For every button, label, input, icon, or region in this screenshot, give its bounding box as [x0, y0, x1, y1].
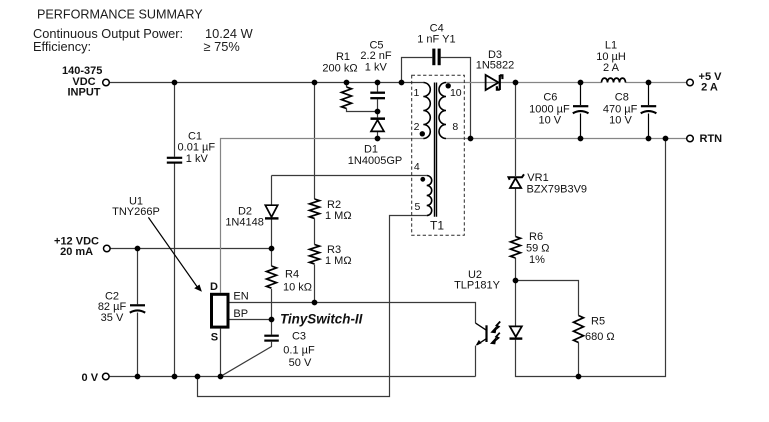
svg-text:10 kΩ: 10 kΩ	[283, 282, 312, 294]
svg-text:1 kV: 1 kV	[365, 61, 388, 73]
transformer T1 dashed box	[412, 75, 465, 235]
svg-text:200 kΩ: 200 kΩ	[322, 63, 357, 75]
inductor L1	[602, 78, 626, 82]
svg-text:470 µF: 470 µF	[603, 103, 638, 115]
resistor R6	[511, 237, 521, 259]
capacitor C8 (electrolytic)	[641, 83, 657, 139]
terminal +5 V 2 A	[687, 79, 694, 86]
resistor R4	[267, 266, 277, 288]
svg-text:C6: C6	[543, 92, 557, 104]
title PERFORMANCE SUMMARY	[33, 8, 254, 55]
capacitor C6 (electrolytic)	[573, 83, 589, 139]
svg-text:5: 5	[414, 201, 420, 213]
capacitor C5	[370, 93, 385, 99]
svg-text:D1: D1	[364, 144, 378, 156]
svg-text:TNY266P: TNY266P	[112, 206, 160, 218]
svg-text:1000 µF: 1000 µF	[529, 103, 570, 115]
svg-text:8: 8	[452, 121, 458, 133]
svg-text:1N5822: 1N5822	[476, 59, 515, 71]
optocoupler U2 light arrows	[492, 322, 500, 344]
wire D1 leads	[377, 112, 379, 139]
svg-text:T1: T1	[430, 219, 444, 233]
resistor R3	[310, 245, 320, 264]
svg-text:C8: C8	[615, 92, 629, 104]
capacitor C4 (Y1)	[432, 49, 440, 66]
svg-text:4: 4	[414, 161, 420, 173]
optocoupler U2 LED	[510, 326, 523, 339]
svg-text:50 V: 50 V	[289, 357, 312, 369]
svg-text:INPUT: INPUT	[68, 87, 101, 99]
diode D1	[371, 117, 386, 131]
svg-text:PERFORMANCE SUMMARY: PERFORMANCE SUMMARY	[37, 8, 203, 22]
terminal 140-375 VDC INPUT	[103, 79, 110, 86]
svg-text:10: 10	[450, 87, 462, 99]
svg-text:1N4148: 1N4148	[225, 217, 264, 229]
terminal RTN	[687, 135, 694, 142]
svg-text:D: D	[210, 281, 218, 293]
svg-text:L1: L1	[605, 40, 617, 52]
transformer T1 primary winding pins 1-2	[423, 83, 430, 139]
wire bottom loop / bias return	[198, 216, 427, 397]
svg-text:2 A: 2 A	[701, 82, 718, 94]
svg-text:EN: EN	[233, 290, 248, 302]
svg-text:2.2 nF: 2.2 nF	[360, 50, 391, 62]
svg-text:0.01 µF: 0.01 µF	[178, 142, 216, 154]
svg-text:1 kV: 1 kV	[186, 153, 209, 165]
U1 TinySwitch-II chip	[212, 294, 229, 327]
zener VR1	[509, 174, 525, 188]
wire drain net (grey)	[221, 83, 687, 293]
svg-text:35 V: 35 V	[101, 312, 124, 324]
optocoupler U2 emitter arrowhead	[476, 340, 482, 346]
optocoupler U2 phototransistor	[476, 323, 487, 345]
svg-text:TLP181Y: TLP181Y	[454, 279, 501, 291]
terminal +12 VDC 20 mA	[104, 245, 111, 252]
capacitor C3	[264, 336, 279, 341]
svg-text:2: 2	[414, 121, 420, 133]
transformer phasing dot secondary	[446, 83, 451, 88]
transformer phasing dot primary	[420, 131, 425, 136]
svg-text:10 V: 10 V	[538, 115, 561, 127]
svg-text:20 mA: 20 mA	[60, 246, 93, 258]
resistor R1	[342, 87, 352, 108]
transformer T1 secondary winding pins 10-8	[439, 83, 446, 139]
wire R1 leads	[347, 83, 378, 112]
svg-text:C3: C3	[292, 331, 306, 343]
svg-text:59 Ω: 59 Ω	[526, 243, 550, 255]
svg-text:C4: C4	[430, 22, 444, 34]
wire secondary RTN rail (grey)	[446, 138, 687, 140]
svg-text:VR1: VR1	[527, 172, 548, 184]
wire R2 R3 column	[314, 83, 316, 303]
wire R6 to R5 branch	[516, 281, 579, 377]
svg-text:R1: R1	[336, 51, 350, 63]
wire VR1 R6 column	[515, 83, 517, 281]
wire C2 column	[137, 249, 139, 377]
wire D2 R4 column	[271, 176, 273, 320]
svg-text:S: S	[211, 332, 218, 344]
wire C1 column	[174, 83, 176, 377]
wire pin4 bias line	[272, 175, 427, 177]
transformer core	[435, 83, 437, 217]
wire LED column and secondary feedback return	[516, 139, 666, 377]
svg-text:RTN: RTN	[700, 133, 723, 145]
svg-text:≥ 75%: ≥ 75%	[204, 39, 240, 54]
svg-text:1 nF Y1: 1 nF Y1	[417, 34, 455, 46]
svg-text:Efficiency:: Efficiency:	[33, 39, 91, 54]
capacitor C2 (electrolytic)	[130, 305, 145, 312]
terminal 0 V	[103, 373, 110, 380]
wire input rail +DC	[109, 82, 423, 84]
wire U1 source column	[220, 329, 222, 377]
svg-text:TinySwitch-II: TinySwitch-II	[280, 311, 363, 326]
wire C3 leads	[221, 320, 272, 377]
svg-text:R6: R6	[529, 231, 543, 243]
capacitor C1	[167, 158, 182, 163]
wire +12V line	[110, 248, 271, 250]
wire BP line	[230, 319, 272, 321]
wire EN line to opto collector	[230, 303, 476, 324]
svg-text:R5: R5	[591, 316, 605, 328]
svg-text:680 Ω: 680 Ω	[585, 331, 615, 343]
wire secondary +5V rail (grey)	[446, 82, 602, 84]
wire C5 leads	[377, 83, 379, 112]
svg-text:1 MΩ: 1 MΩ	[325, 210, 352, 222]
svg-text:1: 1	[413, 87, 419, 99]
svg-text:R4: R4	[285, 269, 299, 281]
svg-text:BZX79B3V9: BZX79B3V9	[527, 184, 588, 196]
wire opto emitter to 0V	[475, 346, 477, 377]
diode D2	[265, 205, 279, 219]
wire 0V rail	[109, 376, 475, 378]
svg-text:BP: BP	[233, 308, 248, 320]
U1 pointer arrow	[148, 217, 202, 291]
svg-text:1N4005GP: 1N4005GP	[348, 155, 402, 167]
svg-text:0.1 µF: 0.1 µF	[283, 345, 315, 357]
svg-text:0 V: 0 V	[82, 372, 99, 384]
svg-text:1%: 1%	[529, 254, 545, 266]
transformer phasing dot bias	[420, 177, 425, 182]
diode D3 (Schottky)	[486, 75, 503, 90]
svg-text:2 A: 2 A	[603, 62, 620, 74]
resistor R5	[574, 316, 584, 343]
svg-text:10 V: 10 V	[609, 115, 632, 127]
transformer T1 bias winding pins 4-5	[427, 176, 432, 216]
svg-text:1 MΩ: 1 MΩ	[325, 255, 352, 267]
wire C4 leads	[402, 58, 471, 139]
resistor R2	[310, 199, 320, 218]
